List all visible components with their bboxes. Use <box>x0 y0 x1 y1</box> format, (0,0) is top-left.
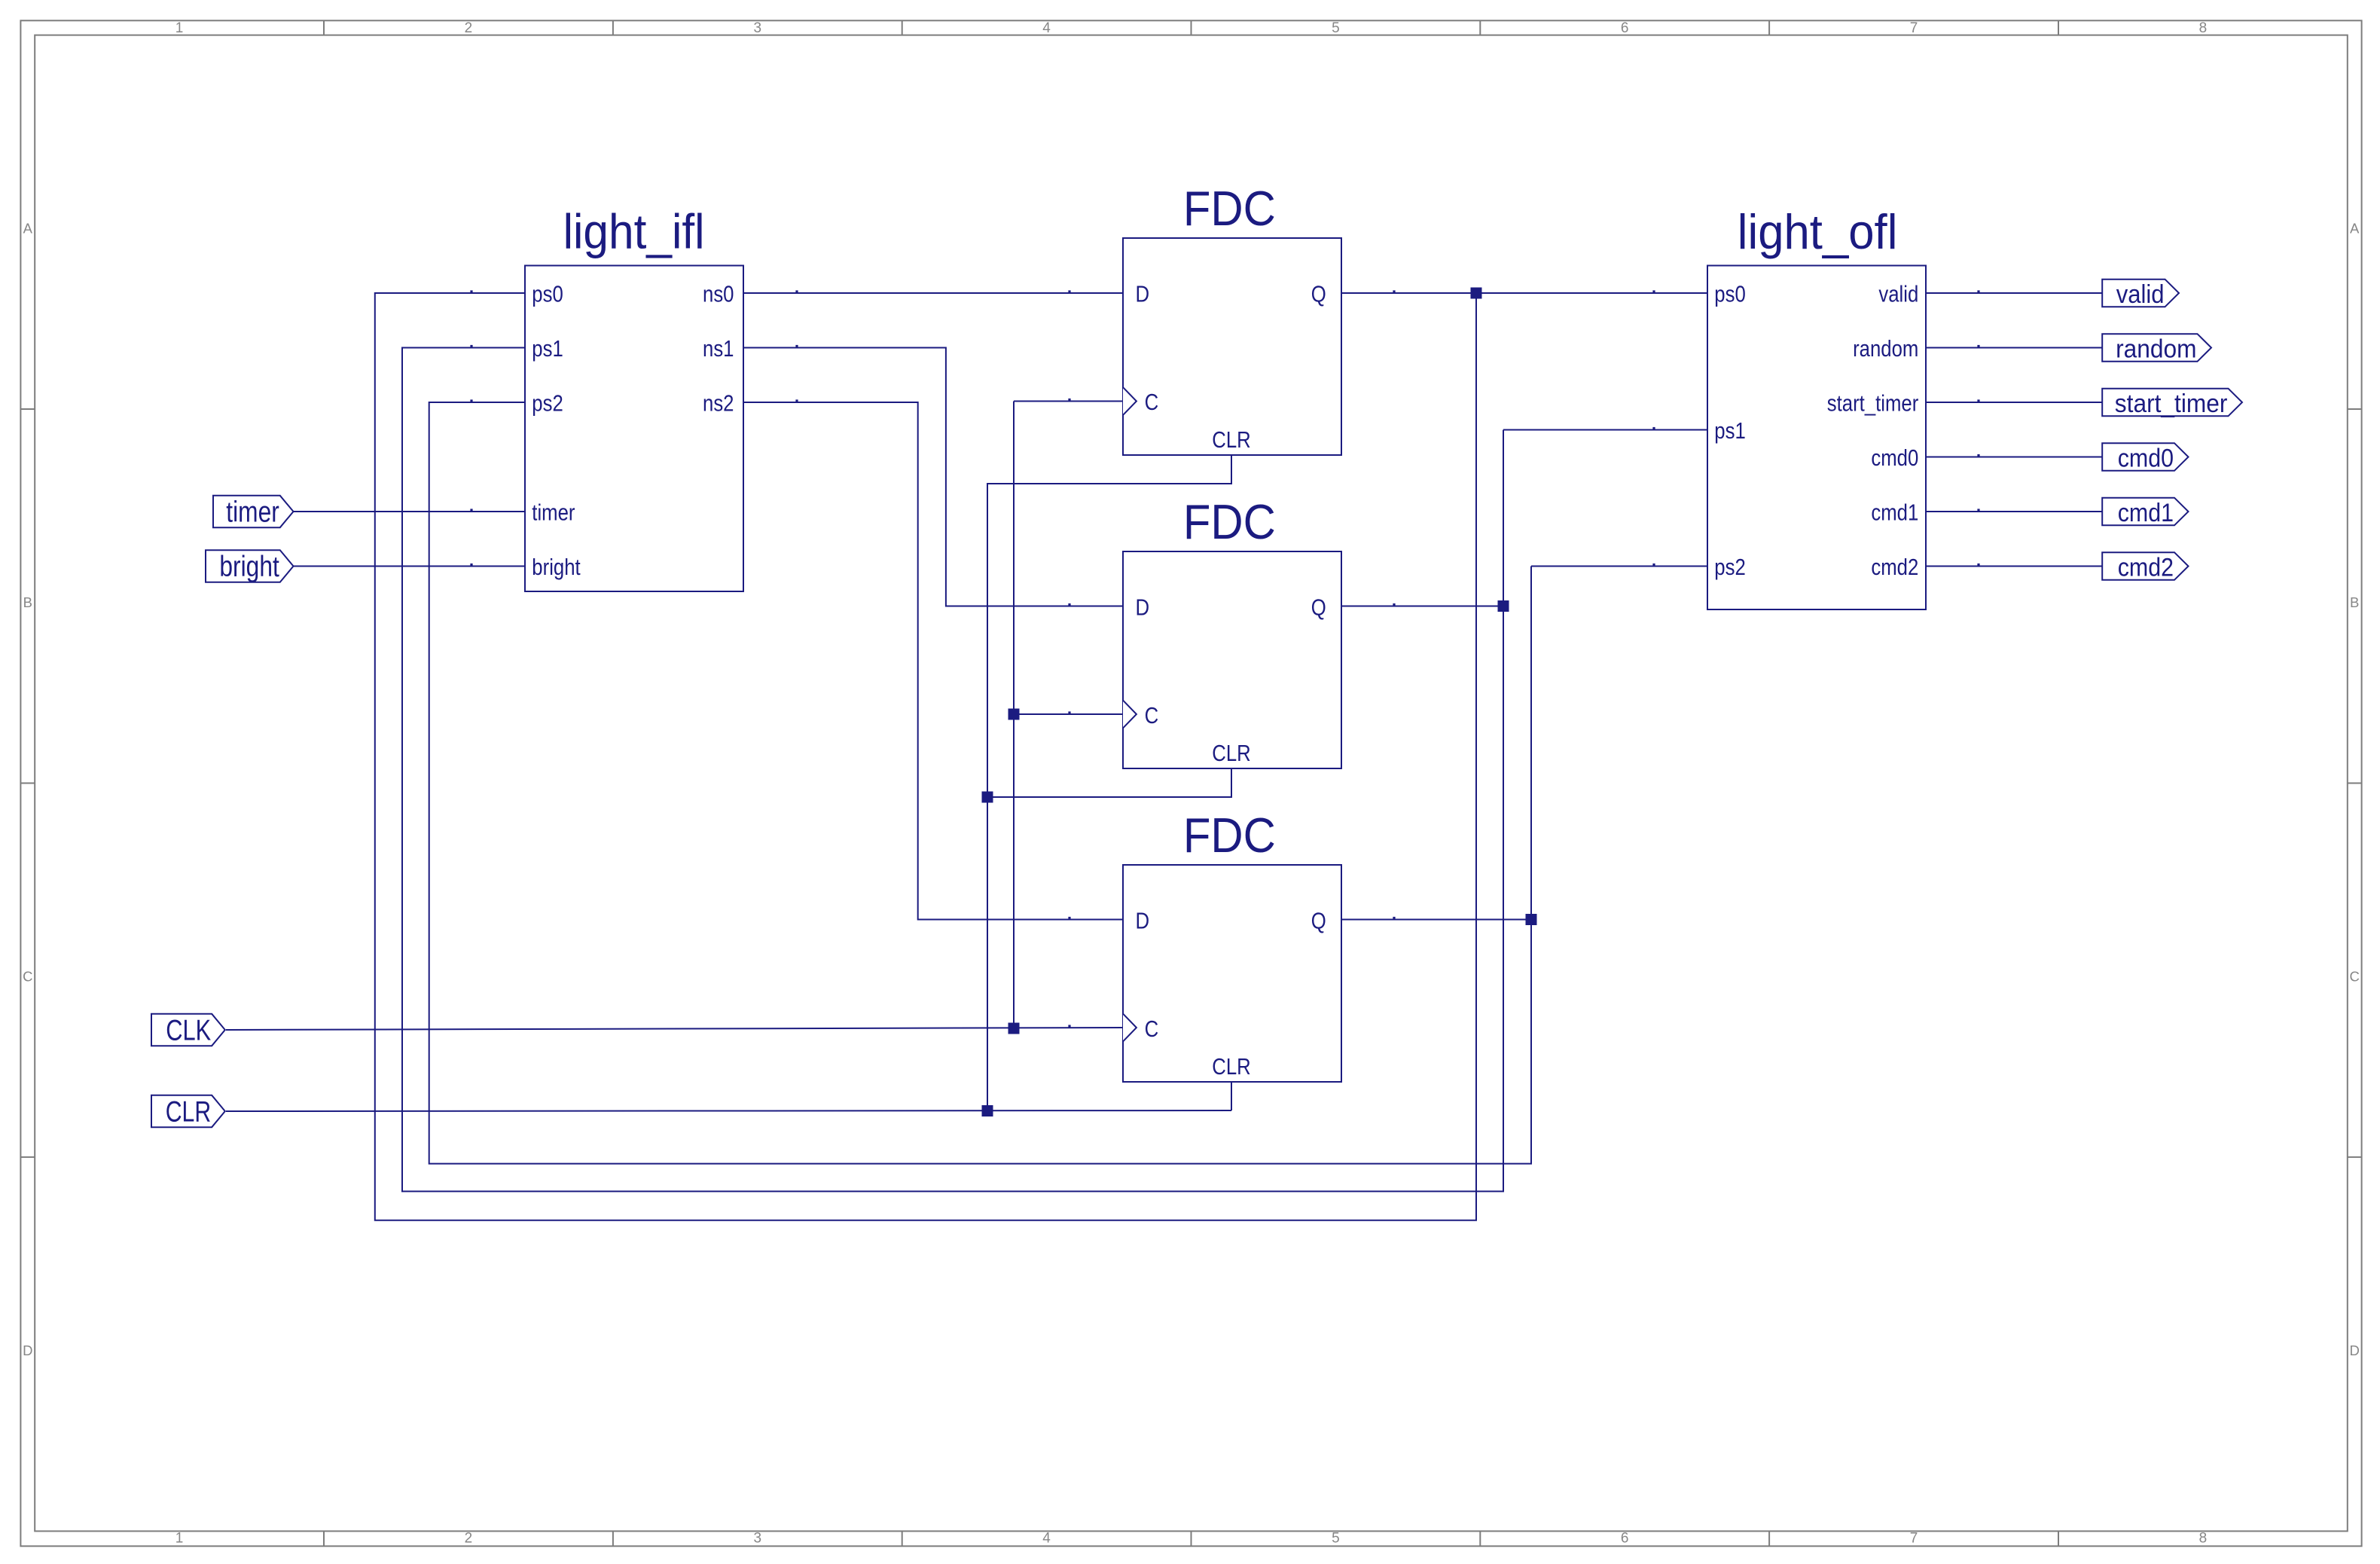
svg-text:valid: valid <box>2116 280 2165 309</box>
svg-text:3: 3 <box>754 20 762 36</box>
svg-text:ns0: ns0 <box>703 281 734 307</box>
svg-text:C: C <box>1145 1016 1159 1042</box>
svg-text:5: 5 <box>1332 1530 1340 1546</box>
svg-text:FDC: FDC <box>1183 181 1276 236</box>
svg-text:1: 1 <box>175 1530 184 1546</box>
svg-text:CLR: CLR <box>1212 1053 1251 1080</box>
svg-text:6: 6 <box>1621 1530 1629 1546</box>
svg-text:bright: bright <box>219 551 279 583</box>
svg-text:Q: Q <box>1311 908 1326 934</box>
svg-text:C: C <box>1145 389 1159 415</box>
svg-text:ps2: ps2 <box>532 390 563 417</box>
svg-text:D: D <box>1136 594 1150 621</box>
svg-text:D: D <box>1136 281 1150 307</box>
svg-text:cmd2: cmd2 <box>1871 554 1918 580</box>
svg-text:D: D <box>1136 908 1150 934</box>
svg-text:CLR: CLR <box>1212 426 1251 453</box>
svg-text:ps0: ps0 <box>1714 281 1746 307</box>
svg-text:random: random <box>1853 335 1918 362</box>
svg-text:light_ifl: light_ifl <box>563 204 705 259</box>
svg-text:ps1: ps1 <box>532 335 563 362</box>
svg-text:timer: timer <box>226 496 279 529</box>
svg-text:ns2: ns2 <box>703 390 734 417</box>
svg-text:1: 1 <box>175 20 184 36</box>
svg-text:ps0: ps0 <box>532 281 563 307</box>
svg-text:2: 2 <box>465 1530 473 1546</box>
svg-text:cmd1: cmd1 <box>2118 499 2174 527</box>
svg-text:4: 4 <box>1042 1530 1051 1546</box>
svg-text:C: C <box>2350 968 2360 984</box>
svg-text:Q: Q <box>1311 281 1326 307</box>
svg-text:D: D <box>23 1343 32 1358</box>
svg-text:FDC: FDC <box>1183 808 1276 863</box>
svg-text:cmd0: cmd0 <box>1871 444 1918 471</box>
svg-text:A: A <box>2350 220 2360 236</box>
svg-text:start_timer: start_timer <box>2115 389 2228 418</box>
svg-text:2: 2 <box>465 20 473 36</box>
svg-text:cmd2: cmd2 <box>2118 554 2174 582</box>
svg-text:start_timer: start_timer <box>1827 390 1919 417</box>
svg-text:cmd1: cmd1 <box>1871 499 1918 526</box>
svg-text:5: 5 <box>1332 20 1340 36</box>
svg-text:B: B <box>23 594 32 610</box>
svg-text:7: 7 <box>1910 20 1918 36</box>
svg-text:4: 4 <box>1042 20 1051 36</box>
svg-text:timer: timer <box>532 499 575 526</box>
svg-text:light_ofl: light_ofl <box>1738 204 1898 259</box>
svg-text:CLR: CLR <box>1212 740 1251 766</box>
svg-text:CLR: CLR <box>166 1096 212 1129</box>
svg-text:Q: Q <box>1311 594 1326 621</box>
svg-text:random: random <box>2116 335 2196 364</box>
svg-text:8: 8 <box>2199 1530 2208 1546</box>
svg-text:8: 8 <box>2199 20 2208 36</box>
svg-text:cmd0: cmd0 <box>2118 444 2174 473</box>
svg-text:ps1: ps1 <box>1714 417 1746 444</box>
svg-text:D: D <box>2350 1343 2360 1358</box>
svg-text:ns1: ns1 <box>703 335 734 362</box>
svg-text:3: 3 <box>754 1530 762 1546</box>
svg-text:A: A <box>23 220 33 236</box>
svg-text:CLK: CLK <box>166 1015 211 1047</box>
svg-text:6: 6 <box>1621 20 1629 36</box>
svg-text:7: 7 <box>1910 1530 1918 1546</box>
svg-text:bright: bright <box>532 554 581 580</box>
svg-text:B: B <box>2350 594 2359 610</box>
svg-text:ps2: ps2 <box>1714 554 1746 580</box>
svg-text:FDC: FDC <box>1183 494 1276 549</box>
svg-text:C: C <box>1145 702 1159 729</box>
svg-text:C: C <box>23 968 32 984</box>
svg-text:valid: valid <box>1878 281 1918 307</box>
